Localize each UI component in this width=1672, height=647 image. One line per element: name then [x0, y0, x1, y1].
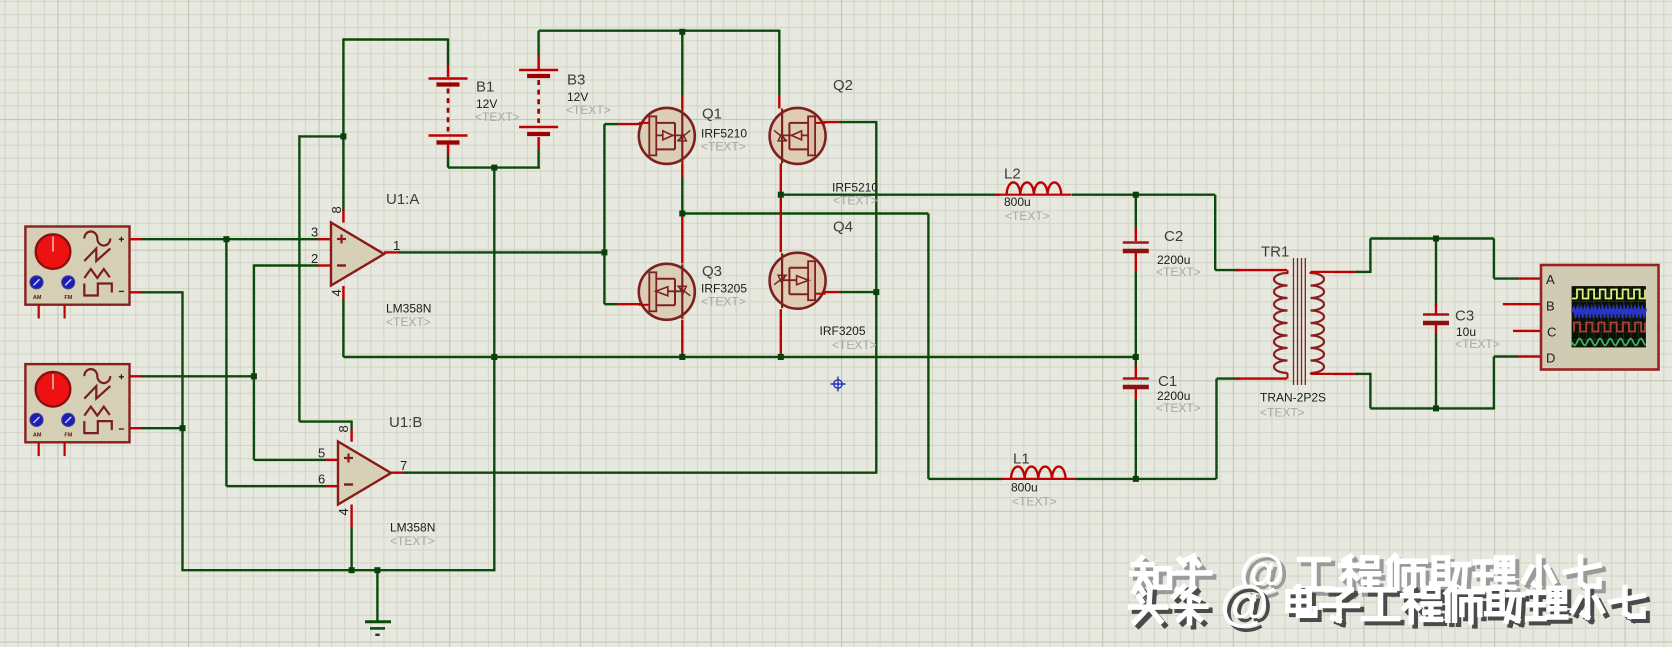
svg-text:7: 7 — [400, 458, 407, 473]
wire to U1:B pin8 — [299, 420, 351, 422]
svg-text:B3: B3 — [567, 72, 585, 89]
wire Q2 drain top — [778, 30, 780, 95]
svg-text:<TEXT>: <TEXT> — [386, 315, 431, 329]
junction C2 top node — [1133, 192, 1139, 198]
wire C1 top — [1135, 357, 1137, 368]
svg-text:@: @ — [1220, 575, 1269, 631]
svg-text:5: 5 — [318, 445, 325, 460]
wire C2 top — [1135, 195, 1137, 230]
svg-text:<TEXT>: <TEXT> — [1156, 401, 1201, 415]
junction C3 top — [1433, 236, 1439, 242]
svg-text:L2: L2 — [1004, 166, 1021, 183]
junction node B — [251, 373, 257, 379]
op-amp U1:B — [338, 442, 391, 505]
wire C3 bottom — [1435, 334, 1437, 408]
pin Q3 top — [681, 214, 683, 264]
svg-text:<TEXT>: <TEXT> — [475, 110, 520, 124]
wire node B vertical — [253, 264, 255, 460]
pin G2+ — [130, 375, 142, 377]
capacitor C1 2200u — [1123, 379, 1149, 388]
junction ground tap — [374, 567, 380, 573]
transformer TR1 TRAN-2P2S — [1274, 258, 1333, 385]
wire TR1 primary top vertical — [1214, 195, 1216, 270]
wire B3 bottom — [537, 138, 539, 168]
wire to Q3 gate — [604, 303, 618, 305]
svg-text:IRF5210: IRF5210 — [701, 127, 747, 141]
svg-text:TR1: TR1 — [1261, 244, 1289, 261]
pin 4 stub U1:A — [342, 286, 344, 299]
pin B3- — [537, 137, 539, 150]
wire Q2 gate link — [840, 121, 877, 123]
pin TR1 secondary- — [1333, 373, 1358, 375]
svg-text:800u: 800u — [1004, 195, 1031, 209]
svg-text:<TEXT>: <TEXT> — [833, 194, 878, 208]
junction node A — [223, 236, 229, 242]
wire B1+ top — [343, 38, 448, 40]
junction left leg — [679, 211, 685, 217]
junction G- — [180, 425, 186, 431]
svg-text:U1:B: U1:B — [389, 414, 422, 431]
wire to U1:A pin2 — [254, 264, 319, 266]
svg-text:Q3: Q3 — [702, 263, 722, 280]
wire G2+ horizontal — [140, 375, 254, 377]
svg-text:Q2: Q2 — [833, 77, 853, 94]
junction Q4 gate — [873, 289, 879, 295]
wire left leg vertical — [927, 214, 929, 479]
wire ground rail middle — [343, 356, 1135, 358]
pin Q2 bottom — [780, 164, 782, 195]
pin Q4 bottom — [780, 309, 782, 357]
pin C1 bottom — [1135, 388, 1137, 400]
svg-text:6: 6 — [318, 472, 325, 487]
wire Q1-Q3 node — [681, 177, 683, 214]
svg-text:12V: 12V — [476, 97, 497, 111]
wire B1 bottom — [447, 155, 449, 168]
pin scope B — [1503, 303, 1541, 305]
wire battery negative link — [448, 166, 540, 168]
battery B1 — [429, 79, 468, 143]
wire L1 to node — [1076, 478, 1136, 480]
pin Q1 gate — [617, 123, 650, 125]
wire gate drive A vertical — [603, 124, 605, 304]
pin B3+ — [537, 56, 539, 69]
signal generator G2 — [25, 364, 129, 456]
pin C2 bottom — [1135, 253, 1137, 272]
pin Q4 top — [780, 195, 782, 253]
wire negative rail vertical — [493, 168, 495, 572]
svg-text:<TEXT>: <TEXT> — [701, 140, 746, 154]
pin 1 stub — [384, 251, 400, 253]
svg-text:L1: L1 — [1013, 451, 1030, 468]
pin scope D — [1517, 355, 1541, 357]
wire top output rail — [1370, 237, 1494, 239]
pin L2 left — [995, 193, 1000, 195]
wire left leg output — [682, 212, 928, 214]
wire to L1 — [928, 478, 1002, 480]
junction L1 output node — [1133, 476, 1139, 482]
junction C1-C2 node — [1133, 354, 1139, 360]
pin C2 top — [1135, 228, 1137, 241]
wire TR1 primary bottom vertical — [1215, 379, 1217, 479]
pin Q4 gate — [813, 291, 842, 293]
svg-text:TRAN-2P2S: TRAN-2P2S — [1260, 391, 1326, 405]
svg-text:B1: B1 — [476, 79, 494, 96]
wire scope D rise — [1493, 357, 1495, 410]
junction Q3 source — [679, 354, 685, 360]
wire V+ vertical to U1:B — [298, 135, 300, 421]
svg-text:FM: FM — [64, 433, 72, 439]
svg-text:LM358N: LM358N — [386, 302, 431, 316]
pin B1- — [447, 144, 449, 155]
svg-text:LM358N: LM358N — [390, 521, 435, 535]
wire B1 top pin — [447, 38, 449, 66]
signal generator G1 — [25, 227, 129, 319]
ground — [365, 622, 391, 635]
wire G2- to rail — [140, 427, 184, 429]
wire G1+ to U1:A pin3 — [140, 238, 319, 240]
pin C3 bottom — [1435, 323, 1437, 334]
junction top rail — [679, 29, 685, 35]
wire right leg output — [781, 193, 996, 195]
wire to U1:B pin5 — [254, 459, 326, 461]
wire to U1:B pin6 — [226, 485, 326, 487]
wire U1:B pin8 drop — [350, 421, 352, 431]
junction V+ branch — [340, 133, 346, 139]
svg-text:C: C — [1547, 325, 1556, 340]
wire TR1 primary top horiz — [1215, 269, 1240, 271]
wire sec bottom vertical — [1369, 373, 1371, 409]
junction pin4 ground — [349, 567, 355, 573]
svg-text:A: A — [1546, 272, 1555, 287]
junction gate drive A — [601, 249, 607, 255]
svg-text:<TEXT>: <TEXT> — [566, 103, 611, 117]
wire Q4 gate link — [840, 291, 876, 293]
svg-text:IRF3205: IRF3205 — [701, 282, 747, 296]
wire L2 right — [1072, 193, 1137, 195]
wire node A vertical — [225, 239, 227, 486]
transistor Q1 IRF5210 — [639, 108, 695, 164]
pin 8 stub U1:B — [350, 430, 352, 442]
svg-text:U1:A: U1:A — [386, 191, 419, 208]
pin Q3 bottom — [681, 320, 683, 357]
wire TR1 sec top — [1356, 271, 1370, 273]
pin 6 stub — [325, 485, 338, 487]
pin Q3 gate — [617, 303, 650, 305]
pin G1+ — [130, 238, 142, 240]
pin 8 stub U1:A — [342, 210, 344, 223]
svg-text:C1: C1 — [1158, 373, 1177, 390]
pin 5 stub — [325, 459, 338, 461]
wire C2 bottom to rail — [1135, 272, 1137, 357]
wire C1 bottom to node — [1135, 400, 1137, 479]
svg-text:Q1: Q1 — [702, 106, 722, 123]
wire node to TR1 primary bottom — [1136, 478, 1217, 480]
pin TR1 secondary+ — [1333, 271, 1358, 273]
svg-text:<TEXT>: <TEXT> — [832, 338, 877, 352]
pin B1+ — [447, 66, 449, 77]
svg-text:4: 4 — [329, 289, 344, 296]
svg-text:<TEXT>: <TEXT> — [390, 534, 435, 548]
pin 3 stub — [318, 238, 331, 240]
svg-text:1: 1 — [393, 238, 400, 253]
wire Q1 drain top — [681, 31, 683, 95]
pin Q2 gate — [811, 121, 841, 123]
pin 2 stub — [318, 264, 331, 266]
pin TR1 primary- — [1235, 377, 1287, 379]
wire U1:B pin4 down — [350, 528, 352, 571]
pin scope C — [1513, 330, 1541, 332]
junction Q4 source — [778, 354, 784, 360]
wire U1:A output — [399, 251, 604, 253]
svg-text:AM: AM — [33, 295, 42, 301]
pin scope A — [1517, 277, 1541, 279]
wire to TR1 primary top — [1137, 193, 1215, 195]
pin TR1 primary+ — [1235, 269, 1287, 271]
wire scope A drop — [1493, 239, 1495, 279]
wire TR1 sec bottom — [1356, 373, 1370, 375]
wire to Q1 gate — [604, 123, 618, 125]
capacitor C2 2200u — [1123, 243, 1149, 252]
watermark line 2 — [1131, 575, 1648, 635]
svg-text:IRF5210: IRF5210 — [832, 181, 878, 195]
pin Q2 top — [778, 95, 780, 109]
watermark line 1 — [1132, 544, 1603, 601]
svg-text:<TEXT>: <TEXT> — [1260, 406, 1305, 420]
junction C3 bottom — [1433, 405, 1439, 411]
inductor L2 800u — [997, 182, 1072, 194]
wire sec top vertical — [1369, 239, 1371, 274]
svg-text:3: 3 — [311, 225, 318, 240]
svg-text:B: B — [1546, 299, 1555, 314]
capacitor C3 10u — [1423, 315, 1449, 324]
pin Q1 bottom — [681, 164, 683, 178]
junction rail mid — [491, 354, 497, 360]
svg-text:<TEXT>: <TEXT> — [1005, 209, 1050, 223]
svg-text:FM: FM — [64, 295, 72, 301]
wire U1:B output — [404, 472, 877, 474]
pin 7 stub — [391, 472, 405, 474]
svg-text:8: 8 — [329, 206, 344, 213]
inductor L1 800u — [1002, 467, 1077, 479]
junction right leg — [778, 192, 784, 198]
wire gate drive B vertical — [875, 122, 877, 472]
svg-text:12V: 12V — [567, 90, 588, 104]
wire signal-return vertical — [181, 291, 183, 570]
pin C3 top — [1435, 304, 1437, 314]
oscilloscope — [1541, 265, 1659, 370]
transistor Q2 IRF5210 — [770, 108, 826, 164]
node origin marker — [831, 377, 846, 392]
wire V+ branch left — [299, 135, 344, 137]
svg-text:IRF3205: IRF3205 — [820, 324, 866, 338]
pin G2- — [130, 427, 142, 429]
svg-text:C2: C2 — [1164, 228, 1183, 245]
wire to scope D — [1494, 355, 1518, 357]
svg-text:<TEXT>: <TEXT> — [1156, 265, 1201, 279]
wire bottom output rail — [1370, 407, 1494, 409]
svg-text:<TEXT>: <TEXT> — [1455, 337, 1500, 351]
transistor Q4 IRF3205 — [770, 253, 826, 309]
battery B3 — [519, 70, 558, 134]
svg-text:<TEXT>: <TEXT> — [1012, 495, 1057, 509]
pin 4 stub U1:B — [350, 505, 352, 528]
wire G1- to rail — [140, 291, 183, 293]
svg-text:Q4: Q4 — [833, 219, 853, 236]
wire B3 top — [537, 31, 539, 69]
pin Q1 top — [681, 95, 683, 109]
wire ground drop — [376, 570, 378, 620]
pin G1- — [130, 291, 142, 293]
svg-text:8: 8 — [336, 425, 351, 432]
wire bottom ground rail — [181, 569, 495, 571]
svg-text:AM: AM — [33, 433, 42, 439]
wire U1:A pin8 vertical — [342, 38, 344, 211]
wire U1:A pin4 down — [342, 299, 344, 357]
wire TR1 primary bottom horiz — [1217, 377, 1241, 379]
svg-text:2: 2 — [311, 251, 318, 266]
wire top positive rail — [539, 30, 780, 32]
svg-text:<TEXT>: <TEXT> — [701, 295, 746, 309]
svg-text:C3: C3 — [1455, 308, 1474, 325]
wire to scope A — [1494, 277, 1518, 279]
op-amp U1:A — [331, 223, 384, 286]
svg-text:800u: 800u — [1011, 481, 1038, 495]
wire C3 top — [1435, 239, 1437, 307]
pin C1 top — [1135, 366, 1137, 378]
junction battery- — [491, 165, 497, 171]
transistor Q3 IRF3205 — [639, 264, 695, 320]
svg-text:D: D — [1546, 351, 1555, 366]
svg-text:4: 4 — [336, 508, 351, 515]
